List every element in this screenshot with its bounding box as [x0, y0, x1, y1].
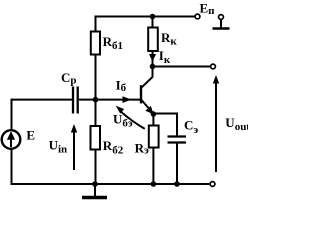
wire: bottom rail	[11, 183, 211, 185]
node: emitter node	[151, 111, 157, 117]
wire: Rk bottom lead / Ik arrow shaft	[152, 51, 154, 67]
label Rb1	[103, 34, 123, 52]
resistor Rk	[148, 28, 158, 52]
terminal Ep (open circle)	[195, 14, 200, 19]
terminal: output top (open circle)	[211, 64, 216, 69]
capacitor Ce	[168, 137, 187, 143]
source E (circle with up arrow)	[2, 130, 21, 149]
wire: Rb2 top lead	[95, 100, 97, 127]
wire: input top wire to Cp	[12, 99, 73, 101]
label E	[26, 128, 35, 143]
wire: top rail from Rb1 top to Ep terminal	[96, 16, 195, 18]
node: top rail / Rk junction	[150, 14, 156, 20]
transistor VT base bar	[140, 85, 142, 103]
terminal: output bottom (open circle)	[210, 182, 215, 187]
capacitor Cp	[73, 87, 78, 114]
label Cp	[61, 70, 77, 87]
wire: collector output wire to terminal	[153, 66, 211, 68]
arrow Uin (up)	[71, 124, 77, 170]
wire: emitter to Re top lead	[152, 114, 154, 126]
wire: collector vertical + diagonal into transistor	[141, 67, 152, 88]
wire: Rb1 top lead	[95, 16, 97, 33]
label Ce	[184, 118, 198, 137]
node: Re bottom junction	[151, 181, 157, 187]
chassis terminal (circle, stem, bar)	[213, 15, 230, 29]
label Re	[135, 140, 149, 156]
svg-text:E: E	[26, 128, 35, 143]
wire: Ce bottom lead	[176, 144, 178, 185]
wire: Rb2 bottom lead	[95, 150, 97, 185]
wire: Cp to base node	[79, 99, 96, 101]
node: Ce bottom junction	[174, 181, 180, 187]
resistor Re	[149, 126, 159, 148]
wire: emitter node to Ce branch	[153, 114, 177, 138]
label Ib	[116, 78, 127, 95]
resistor Rb2	[91, 126, 101, 150]
ground	[82, 184, 107, 198]
wire: Rk top lead	[152, 17, 154, 29]
arrow Ib (right, on base wire)	[123, 96, 132, 103]
label Rb2	[103, 138, 124, 156]
wire: left vertical lower	[11, 149, 13, 185]
label Ik	[159, 48, 171, 66]
label Ube	[113, 111, 133, 129]
arrow Uout (up)	[213, 75, 219, 172]
arrow Ik (down)	[149, 54, 156, 62]
label Rk	[161, 30, 177, 48]
node: collector node	[150, 64, 156, 70]
label Ep	[200, 1, 216, 17]
wire: Rb1 bottom lead to base node	[95, 55, 97, 100]
wire: Re bottom lead	[152, 148, 154, 185]
wire: base wire from Cp node to base bar	[96, 99, 141, 101]
node: base junction	[93, 97, 99, 103]
transistor VT emitter with arrow	[142, 100, 154, 114]
arrow Ube (curved)	[116, 106, 145, 129]
label Uout	[225, 115, 250, 133]
wire: left vertical upper	[11, 99, 13, 130]
resistor Rb1	[91, 32, 100, 55]
label Uin	[49, 138, 68, 156]
node: ground junction on bottom rail	[92, 181, 98, 187]
